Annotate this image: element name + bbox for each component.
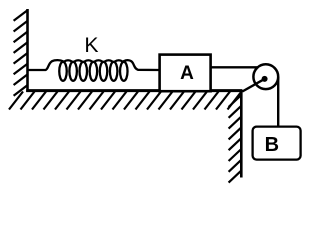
right wall hatching	[229, 95, 242, 183]
block B	[253, 127, 301, 160]
left wall hatching	[14, 10, 28, 96]
block A	[160, 55, 211, 92]
floor hatching	[9, 92, 242, 110]
rope from pulley down to B	[277, 77, 279, 128]
spring K coil loops	[59, 62, 127, 81]
rope from A to pulley	[209, 66, 262, 68]
right wall line	[240, 90, 243, 178]
svg-text:A: A	[180, 63, 194, 84]
svg-text:B: B	[265, 134, 279, 156]
svg-text:K: K	[84, 34, 98, 57]
pulley axle dot	[262, 76, 268, 82]
left wall line	[26, 9, 29, 92]
floor line	[26, 89, 242, 92]
pulley strut	[242, 79, 264, 92]
spring K end connectors and top bridges	[29, 60, 160, 70]
pulley wheel	[253, 64, 278, 89]
